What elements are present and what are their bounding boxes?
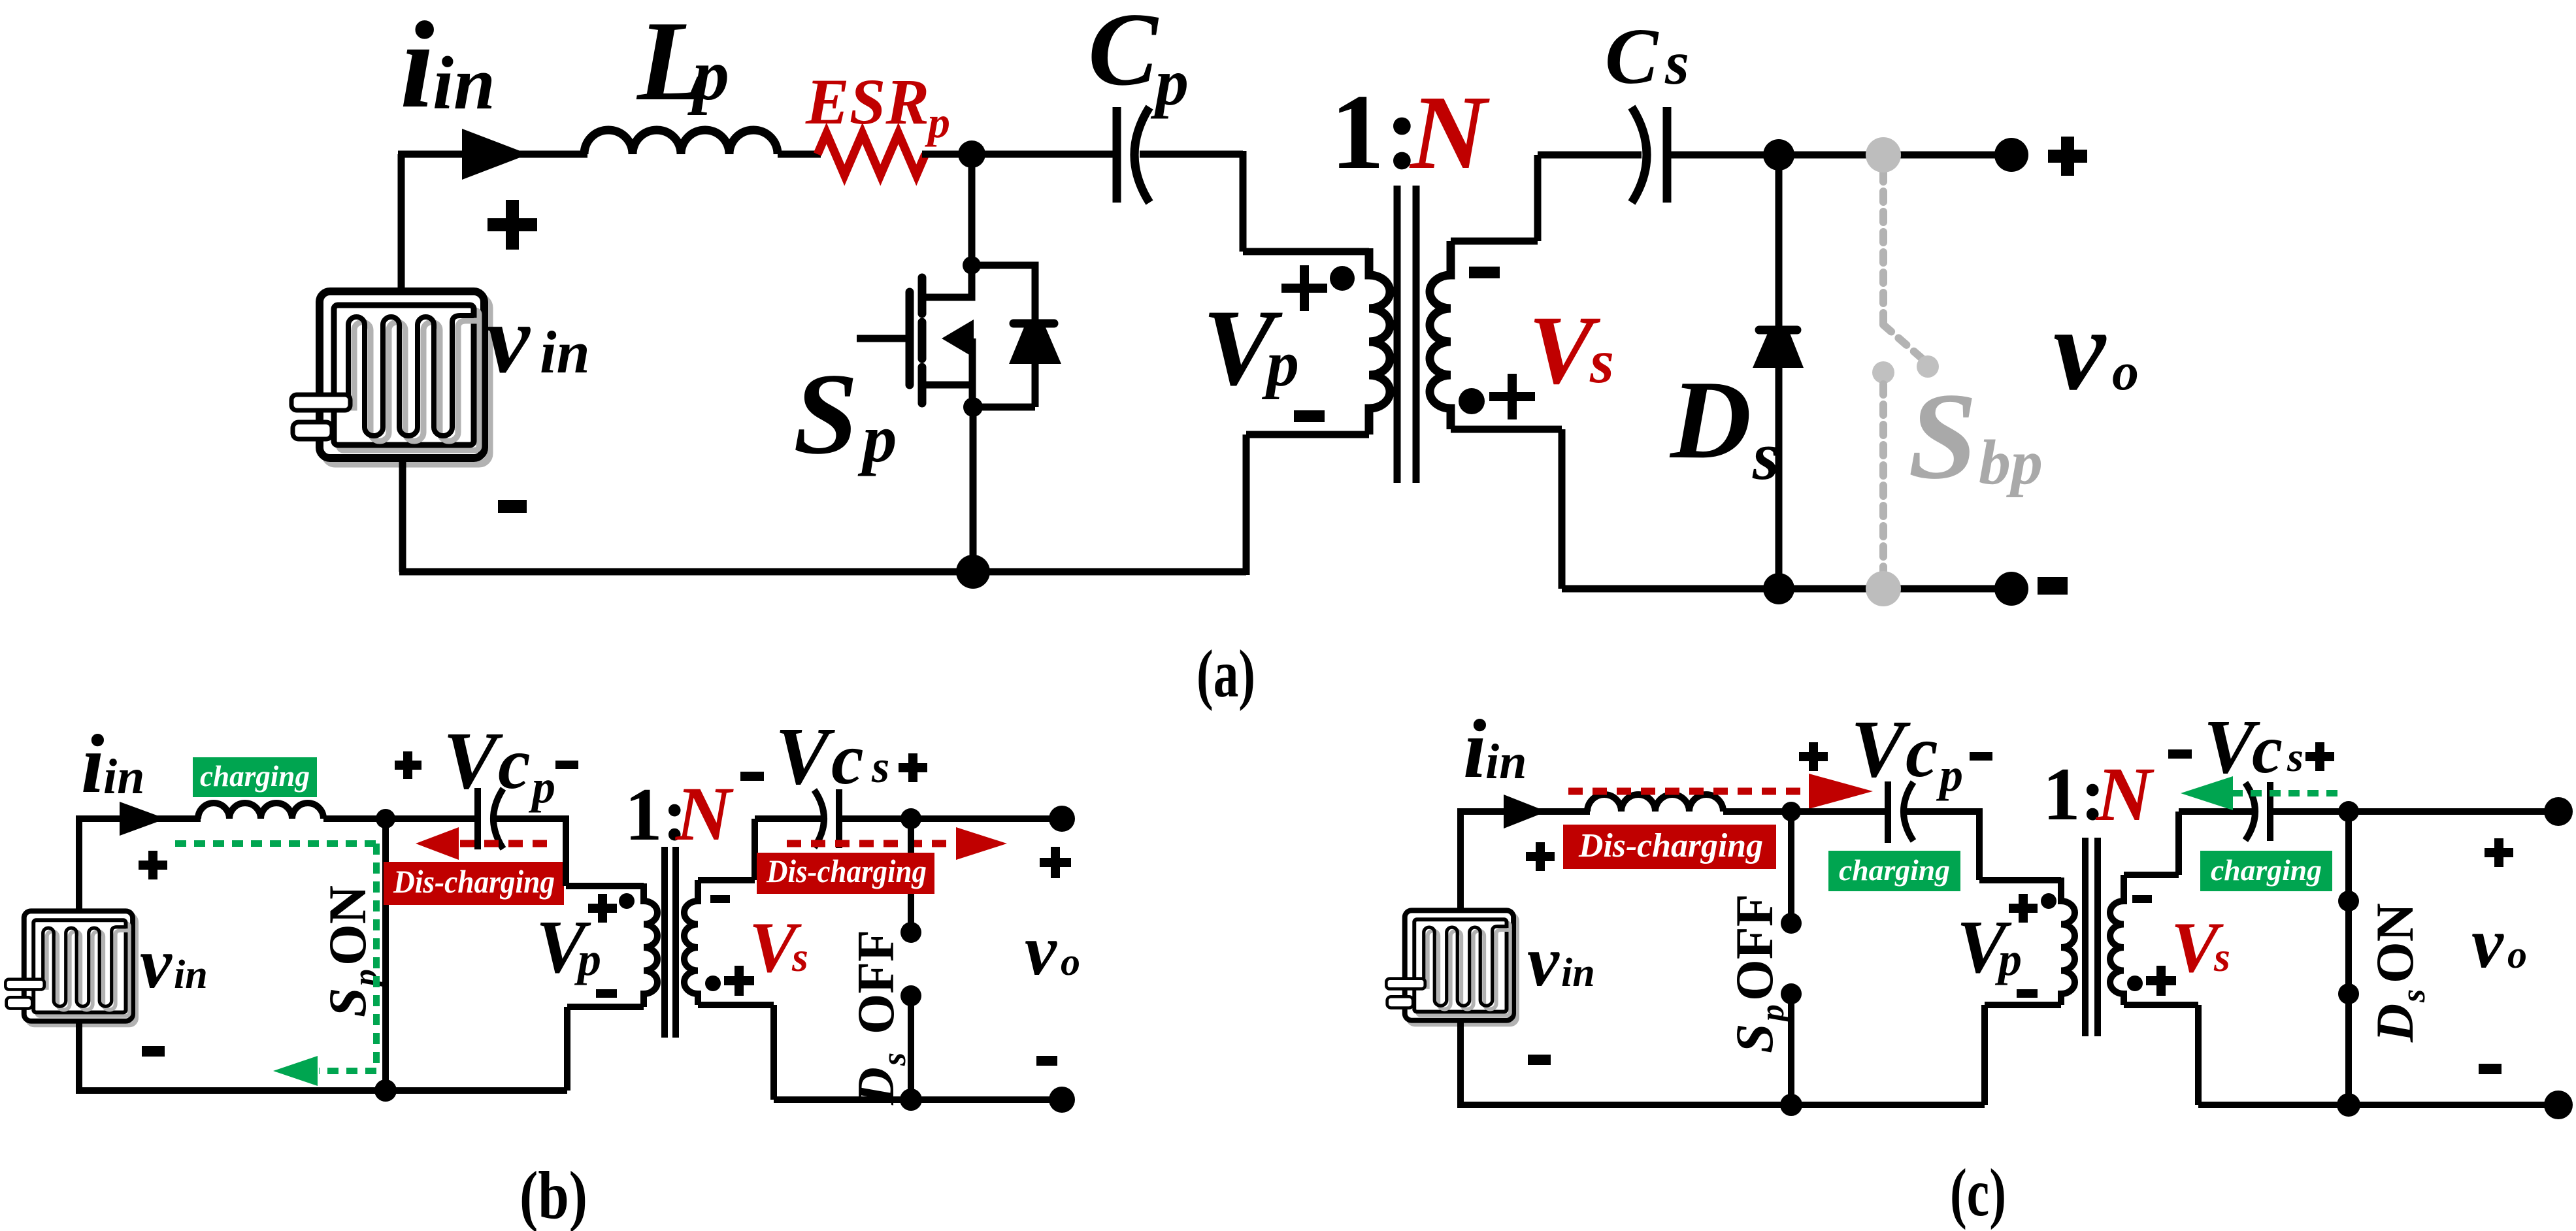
label - output	[2479, 1064, 2502, 1074]
svg-text:V: V	[443, 716, 503, 806]
transistor Sp arrow	[942, 320, 974, 357]
svg-text:N: N	[2095, 751, 2155, 837]
label - secondary	[710, 895, 730, 903]
svg-text:c: c	[498, 723, 531, 804]
svg-text:S: S	[1725, 1023, 1784, 1053]
wire TEG bottom	[399, 461, 406, 572]
junction dot Cs-Ds	[1763, 139, 1794, 171]
node junction dot	[958, 140, 985, 168]
svg-text:s: s	[1664, 28, 1689, 97]
wire TEG bottom	[1457, 1019, 1464, 1105]
wire TEG top to rail	[398, 154, 405, 291]
node junction dot	[376, 809, 395, 829]
output terminal dot -	[1994, 572, 2028, 606]
transistor Sp gate lead	[857, 335, 906, 342]
diode Ds OFF wire lower	[908, 996, 914, 1100]
svg-text:v: v	[486, 285, 531, 393]
label box charging	[1828, 851, 1960, 891]
contact dot lower	[1781, 983, 1802, 1004]
label + output	[2048, 137, 2087, 176]
svg-text:D: D	[2365, 1004, 2424, 1043]
secondary dot mark	[705, 976, 721, 991]
label - output	[1036, 1056, 1057, 1066]
label - primary	[1294, 410, 1325, 422]
svg-text:Dis-charging: Dis-charging	[1578, 827, 1763, 864]
TEG source VIN	[291, 291, 489, 464]
svg-text:p: p	[1936, 749, 1963, 801]
junction dot source	[963, 397, 983, 417]
green dashed arrow charging	[2232, 790, 2343, 796]
wire ESR to node	[922, 151, 1120, 158]
transformer core	[665, 847, 676, 1038]
svg-text:s: s	[1589, 327, 1614, 396]
body diode triangle	[1009, 327, 1061, 364]
label - input	[1528, 1055, 1551, 1065]
svg-text:charging: charging	[200, 759, 310, 793]
label + primary	[2009, 894, 2038, 923]
TEG source	[1386, 910, 1517, 1024]
wire inductor to cap	[323, 815, 481, 822]
label + input	[139, 851, 167, 879]
wire cap to output	[2270, 808, 2558, 815]
secondary dot mark	[1459, 388, 1485, 414]
label + secondary	[2146, 966, 2176, 996]
label + output	[1040, 847, 1071, 878]
wire bottom rail secondary	[2198, 1102, 2558, 1108]
label box Dis-charging	[384, 862, 564, 905]
svg-text:p: p	[925, 97, 950, 147]
transformer secondary winding	[684, 880, 698, 1005]
label - primary	[596, 989, 617, 998]
wire bottom rail secondary	[1562, 585, 2011, 593]
svg-text:(b): (b)	[520, 1158, 587, 1231]
svg-text:i: i	[1463, 702, 1487, 795]
svg-text:V: V	[1851, 704, 1911, 795]
svg-text:S: S	[793, 349, 858, 478]
output terminal dot -	[2544, 1091, 2573, 1119]
svg-text:c: c	[1906, 712, 1938, 793]
label + secondary	[1489, 374, 1535, 419]
wire top rail left	[398, 151, 587, 158]
transformer primary winding	[644, 883, 657, 1007]
switch Sbp contact dot left	[1872, 361, 1894, 384]
label - secondary	[2132, 895, 2152, 903]
svg-text:V: V	[775, 712, 835, 802]
wire node down to mosfet	[968, 154, 976, 265]
junction dot Sp bottom	[1780, 1094, 1802, 1116]
svg-text:S: S	[318, 987, 377, 1017]
green dashed loop bottom	[319, 1068, 376, 1074]
svg-text:N: N	[674, 771, 734, 857]
junction dot VCs-Ds	[900, 808, 921, 829]
contact dot upper	[2338, 891, 2359, 911]
diode Ds ON wire	[2345, 812, 2352, 1105]
svg-text:v: v	[2053, 284, 2107, 414]
contact dot upper	[1781, 913, 1802, 934]
svg-text:C: C	[1605, 12, 1659, 101]
wire bottom rail secondary	[774, 1096, 1062, 1103]
transformer core	[1397, 186, 1416, 483]
wire primary bottom step	[1985, 1005, 2061, 1105]
switch Sp OFF wire lower	[1788, 994, 1794, 1105]
diode Ds wire bottom	[1775, 366, 1783, 589]
switch Sbp top node gray dot	[1866, 137, 1901, 172]
wire secondary top step	[698, 819, 826, 880]
wire secondary bottom step	[698, 1005, 774, 1100]
wire bottom rail primary	[76, 1087, 567, 1094]
svg-text:charging: charging	[1839, 853, 1950, 887]
svg-text:D: D	[1669, 358, 1751, 482]
svg-text:p: p	[1754, 1004, 1791, 1024]
svg-text:p: p	[1994, 933, 2022, 985]
svg-text:ON: ON	[2365, 903, 2424, 983]
svg-text:in: in	[174, 953, 208, 997]
capacitor Cs	[1632, 107, 1647, 203]
capacitor VCs	[2245, 783, 2255, 840]
wire secondary bottom step	[1451, 429, 1562, 589]
red dashed arrow discharging right	[787, 840, 956, 847]
switch Sp OFF wire upper	[1788, 812, 1794, 923]
contact dot lower	[900, 985, 921, 1006]
diode Ds OFF wire upper	[908, 819, 914, 932]
svg-text:1:: 1:	[1330, 72, 1420, 191]
svg-text:N: N	[1409, 74, 1490, 191]
body diode wires	[972, 265, 1035, 407]
wire primary bottom step	[1246, 435, 1369, 575]
wire top rail	[1457, 808, 1590, 815]
capacitor VCp	[1885, 781, 1891, 843]
current arrow i_in	[120, 802, 166, 836]
label - VCs	[2168, 749, 2192, 759]
svg-text:o: o	[1061, 940, 1080, 983]
inductor Lp	[584, 130, 778, 154]
current arrow i_in	[1504, 795, 1547, 829]
wire cap to primary step	[495, 815, 644, 886]
svg-text:ON: ON	[318, 885, 377, 966]
junction dot Sp bottom	[374, 1079, 397, 1102]
svg-text:i: i	[400, 0, 435, 134]
switch Sp ON wire	[382, 819, 389, 1091]
wire secondary top step	[1451, 155, 1642, 241]
capacitor VCp	[474, 788, 481, 849]
output terminal dot -	[1049, 1087, 1075, 1113]
label - input	[498, 500, 527, 513]
green dashed loop horizontal	[175, 840, 376, 847]
svg-text:i: i	[81, 717, 105, 810]
svg-text:p: p	[528, 761, 555, 813]
wire Cs to output	[1667, 152, 2011, 159]
output terminal dot +	[2544, 797, 2573, 826]
label box charging right	[2200, 851, 2332, 891]
svg-text:OFF: OFF	[848, 930, 905, 1034]
wire inductor to ESR	[778, 151, 821, 158]
label - input	[142, 1046, 165, 1057]
junction dot mosfet drain node	[963, 256, 981, 274]
svg-text:s: s	[1752, 418, 1779, 494]
contact dot lower	[2338, 983, 2359, 1004]
switch Sbp contact dot right	[1917, 355, 1939, 378]
svg-text:s: s	[2395, 989, 2432, 1003]
current arrow i_in	[462, 129, 529, 180]
wire top rail	[76, 815, 201, 822]
primary dot mark	[2041, 893, 2056, 909]
svg-text:in: in	[540, 319, 590, 386]
svg-text:s: s	[871, 742, 889, 793]
TEG source	[5, 911, 136, 1025]
svg-text:S: S	[1908, 368, 1977, 505]
label + primary	[588, 894, 617, 923]
label + input	[487, 200, 537, 250]
body diode bar	[1014, 320, 1054, 328]
transistor Sp MOSFET gate bar	[906, 292, 914, 385]
svg-text:in: in	[1561, 951, 1595, 995]
label + output	[2485, 838, 2513, 867]
svg-text:s: s	[2287, 734, 2304, 780]
junction dot Ds bottom	[1763, 573, 1794, 604]
wire source to bottom rail	[970, 407, 977, 572]
junction dot Ds bottom	[900, 1089, 922, 1111]
wire TEG top to rail	[76, 819, 82, 911]
capacitor VCs	[814, 790, 824, 847]
svg-text:v: v	[2471, 903, 2504, 983]
diode Ds triangle	[1753, 333, 1804, 368]
output terminal dot +	[1994, 138, 2028, 172]
label + VCp	[395, 751, 421, 779]
svg-text:charging: charging	[2211, 853, 2322, 887]
svg-text:p: p	[1150, 46, 1189, 120]
svg-text:(a): (a)	[1197, 636, 1255, 712]
wire inductor to cap	[1723, 808, 1891, 815]
wire secondary top step	[2124, 812, 2253, 875]
contact dot upper	[900, 922, 921, 943]
red dashed arrow discharging left	[460, 840, 550, 847]
green arrowhead	[273, 1056, 318, 1086]
svg-text:v: v	[1025, 910, 1057, 990]
green dashed loop vertical	[373, 844, 380, 1071]
label + secondary	[724, 966, 754, 996]
inductor Lp	[1587, 795, 1723, 812]
label - VCp	[555, 761, 578, 769]
svg-text:in: in	[433, 42, 495, 125]
svg-text:C: C	[1088, 0, 1159, 107]
node junction dot	[1781, 802, 1801, 821]
svg-text:c: c	[2252, 711, 2283, 787]
label box charging	[193, 757, 317, 797]
svg-text:Dis-charging: Dis-charging	[766, 853, 927, 889]
switch Sbp dashed upper	[1879, 171, 1887, 325]
svg-text:s: s	[876, 1053, 913, 1066]
svg-text:v: v	[1527, 921, 1560, 1001]
transformer secondary winding	[2110, 875, 2124, 1005]
switch Sbp dashed lever	[1883, 325, 1924, 360]
wire bottom rail primary	[1457, 1102, 1985, 1108]
label box Dis-charging	[1563, 825, 1776, 869]
junction dot bottom rail	[956, 555, 990, 589]
svg-text:c: c	[831, 719, 864, 800]
wire TEG top to rail	[1457, 812, 1464, 911]
primary dot mark	[619, 893, 635, 909]
red dashed arrow dis-charging	[1568, 788, 1810, 795]
label + primary	[1281, 265, 1327, 311]
wire bottom rail primary	[399, 568, 1246, 576]
switch Sbp bottom node gray dot	[1866, 571, 1901, 606]
svg-text:in: in	[103, 749, 144, 804]
svg-text:p: p	[574, 933, 601, 985]
primary dot mark	[1330, 266, 1355, 291]
diode Ds bar	[1759, 326, 1797, 335]
svg-text:v: v	[140, 923, 173, 1003]
label - primary	[2017, 989, 2038, 998]
transformer core	[2085, 838, 2098, 1036]
resistor ESRp	[817, 133, 925, 175]
svg-text:p: p	[1261, 327, 1299, 400]
svg-text:p: p	[687, 35, 729, 116]
wire Cp to transformer step	[1140, 151, 1369, 252]
label - VCs	[740, 772, 764, 781]
wire TEG bottom	[76, 1019, 82, 1091]
transistor Sp source wires	[922, 338, 972, 407]
wire drain	[922, 265, 972, 297]
transformer primary winding	[2061, 878, 2075, 1005]
wire cap to output	[839, 815, 1062, 822]
label - output	[2038, 577, 2068, 595]
svg-text:p: p	[857, 400, 897, 476]
transformer primary winding	[1369, 248, 1390, 435]
svg-text:OFF: OFF	[1725, 894, 1784, 1001]
inductor Lp	[198, 803, 323, 819]
label + VCp	[1799, 742, 1828, 771]
svg-text:in: in	[1485, 734, 1527, 789]
switch Sbp dashed lower	[1879, 384, 1887, 574]
output terminal dot +	[1049, 806, 1075, 832]
label - secondary	[1469, 267, 1500, 278]
svg-text:o: o	[2507, 933, 2527, 976]
svg-text:ESR: ESR	[805, 65, 929, 138]
svg-text:o: o	[2112, 342, 2139, 401]
transformer secondary winding	[1430, 241, 1451, 429]
label - VCp	[1970, 752, 1992, 761]
junction dot VCs-Ds	[2338, 801, 2359, 822]
svg-text:s: s	[791, 934, 808, 980]
wire secondary bottom step	[2124, 1005, 2198, 1105]
secondary dot mark	[2127, 976, 2143, 991]
capacitor Cp	[1113, 107, 1121, 203]
label + VCs	[899, 753, 927, 782]
svg-text:s: s	[2213, 934, 2230, 980]
label box Dis-charging right	[757, 853, 934, 894]
svg-text:Dis-charging: Dis-charging	[393, 863, 555, 900]
label + input	[1526, 842, 1555, 871]
wire primary bottom step	[567, 1007, 644, 1091]
junction dot Ds bottom	[2337, 1093, 2360, 1117]
svg-text:(c): (c)	[1950, 1155, 2006, 1230]
svg-text:bp: bp	[1979, 427, 2043, 498]
transistor Sp channel dashes	[918, 278, 927, 403]
diode Ds wire top	[1775, 155, 1783, 333]
wire cap to primary step	[1905, 808, 2061, 880]
label + VCs	[2305, 742, 2334, 771]
